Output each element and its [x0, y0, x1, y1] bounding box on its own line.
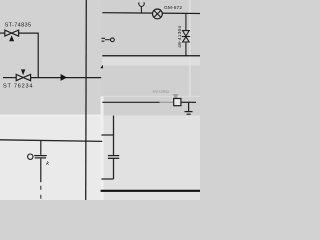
dashed wire continuation	[40, 186, 42, 199]
mark above box	[173, 95, 178, 97]
capacitor C2 top plate	[108, 155, 119, 157]
top-right upper pipe line	[102, 12, 200, 15]
light band across right half	[102, 57, 200, 65]
flow arrow on main pipe	[61, 74, 67, 81]
heavy bottom border line	[101, 190, 200, 192]
signal line right segment	[181, 101, 196, 103]
capacitor C2 bottom plate	[108, 157, 119, 159]
svg-text:GM-672: GM-672	[164, 5, 182, 11]
light transition line left half	[0, 115, 102, 117]
long vertical pipe line	[85, 0, 88, 200]
background bottom-left scan area	[0, 116, 102, 201]
svg-text:HV-1294a: HV-1294a	[153, 89, 171, 94]
valve V2 left triangle	[16, 74, 23, 80]
lamp X diagonals	[154, 11, 161, 18]
signal line gray segment	[160, 101, 174, 103]
ground bar 2	[187, 113, 191, 115]
svg-text:ST-74835: ST-74835	[5, 23, 32, 29]
capacitor C1 branch wire upper	[40, 140, 42, 154]
vertical pipe below valve V3	[185, 42, 187, 56]
valve V2 top port wedge	[21, 69, 25, 75]
valve V3 seat bar	[182, 36, 190, 38]
valve V2 right triangle	[23, 74, 30, 80]
small arrowhead at seam	[100, 65, 103, 69]
wire from valve V1 to corner and down	[19, 33, 39, 78]
instrument connection circle	[111, 38, 115, 42]
vent stem	[140, 6, 142, 13]
valve V1 right triangle	[12, 30, 19, 36]
valve V3 bottom triangle	[183, 37, 190, 42]
vent circle	[139, 2, 144, 6]
top-right lower pipe line	[102, 55, 200, 57]
instrument connection dashes	[102, 38, 106, 41]
valve V1 bottom port wedge	[9, 35, 14, 41]
wire stub left of valve V1	[0, 32, 5, 34]
instrument connection stem	[105, 39, 110, 41]
valve V3 top triangle	[183, 31, 190, 36]
signal line left segment	[102, 101, 159, 103]
light vertical fold line top right	[189, 0, 190, 96]
capacitor C1 branch wire lower	[40, 159, 42, 183]
svg-text:k: k	[46, 161, 49, 167]
svg-text:ST 76234: ST 76234	[3, 84, 33, 90]
bottom-left horizontal pipe line	[0, 140, 102, 142]
vertical pipe to valve V3	[185, 13, 187, 31]
circle marker at capacitor C1	[28, 154, 33, 159]
vertical wire with capacitor C2 upper	[113, 116, 115, 155]
valve V1 left triangle	[5, 30, 12, 36]
small component box	[174, 99, 181, 106]
left stub to vertical wire	[101, 134, 113, 136]
drop wire to ground	[188, 102, 190, 111]
capacitor C1 top plate	[34, 155, 46, 157]
background top-left scan area	[0, 0, 102, 116]
light seam strip between bottom halves	[101, 96, 104, 200]
faint seam line right half	[102, 95, 200, 98]
ground bar 1	[185, 111, 193, 113]
wire stub left of valve V2	[3, 77, 16, 79]
background bottom-right scan area	[102, 116, 200, 201]
main pipe line from valve V2 to seam	[31, 77, 102, 79]
vertical wire with capacitor C2 lower	[113, 159, 115, 179]
svg-text:48-41304: 48-41304	[177, 25, 183, 47]
lamp circle with X	[153, 9, 163, 19]
capacitor C1 bottom plate	[35, 157, 46, 159]
background top-right scan area	[102, 0, 200, 116]
bottom corner stub	[101, 178, 113, 180]
